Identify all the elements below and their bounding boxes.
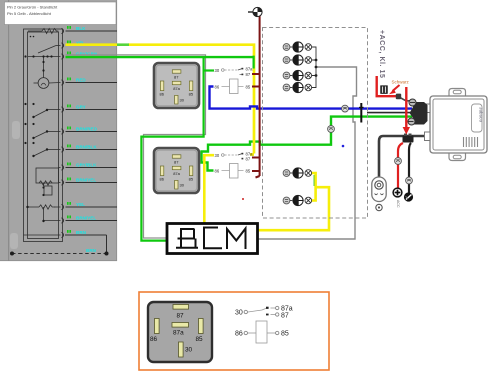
svg-text:86: 86 (215, 84, 220, 89)
svg-text:GRY/BLK: GRY/BLK (76, 163, 97, 168)
svg-text:87: 87 (281, 313, 289, 320)
svg-text:86: 86 (215, 168, 220, 173)
svg-text:BRN/BLK: BRN/BLK (76, 145, 97, 150)
svg-text:87a: 87a (173, 330, 184, 337)
svg-text:86: 86 (150, 336, 158, 343)
svg-text:BRN: BRN (76, 230, 87, 235)
svg-text:+ACC, Kl. 15: +ACC, Kl. 15 (378, 30, 385, 78)
svg-text:87a: 87a (173, 86, 180, 91)
svg-text:85: 85 (281, 331, 289, 338)
svg-text:Pin 5 Gelb - Abblendlicht: Pin 5 Gelb - Abblendlicht (7, 11, 52, 16)
svg-text:87: 87 (177, 313, 185, 320)
svg-text:BLK: BLK (76, 26, 86, 31)
svg-text:87: 87 (246, 157, 251, 162)
svg-text:BRN/RED: BRN/RED (76, 127, 98, 132)
svg-text:87a: 87a (246, 66, 254, 71)
svg-text:30: 30 (215, 153, 220, 158)
svg-text:30: 30 (235, 310, 243, 317)
svg-text:Schwarz: Schwarz (392, 80, 410, 85)
svg-text:30: 30 (215, 68, 220, 73)
svg-text:87: 87 (174, 75, 179, 80)
svg-text:BRN/YEL: BRN/YEL (76, 216, 96, 221)
svg-text:30: 30 (180, 98, 185, 103)
svg-text:85: 85 (246, 168, 251, 173)
svg-text:85: 85 (246, 84, 251, 89)
svg-text:85: 85 (189, 92, 194, 97)
svg-text:ACC: ACC (396, 200, 400, 208)
svg-text:RED: RED (76, 78, 86, 83)
svg-text:BRN: BRN (86, 248, 97, 253)
svg-text:30: 30 (185, 347, 193, 354)
svg-text:YEL: YEL (76, 202, 85, 207)
svg-text:GRY: GRY (76, 105, 86, 110)
svg-text:86: 86 (160, 92, 165, 97)
svg-text:Pin 2 Grau/Grün - Standlicht: Pin 2 Grau/Grün - Standlicht (7, 5, 58, 10)
svg-text:85: 85 (196, 336, 204, 343)
svg-text:Jabsco: Jabsco (479, 107, 484, 122)
svg-text:GRY/GRN: GRY/GRN (76, 52, 98, 57)
svg-text:87a: 87a (281, 306, 293, 313)
svg-text:86: 86 (235, 331, 243, 338)
svg-text:BRN/YEL: BRN/YEL (76, 178, 96, 183)
svg-text:87: 87 (246, 72, 251, 77)
